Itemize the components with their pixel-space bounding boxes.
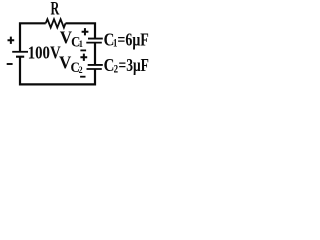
polarity - for C1 [80,49,86,51]
svg-text:100V: 100V [28,43,61,63]
svg-text:=6μF: =6μF [117,30,148,50]
battery V1 short plate (-) [16,56,24,58]
value label C1=6uF [104,29,149,49]
svg-text:=3μF: =3μF [119,55,149,75]
wire: top-left segment (battery + terminal up to resistor) [20,23,46,51]
resistor R [46,19,66,27]
capacitor C2 [87,65,103,69]
capacitor C1 [86,39,103,43]
battery polarity - [7,63,13,65]
polarity + for C1 [82,28,89,35]
battery polarity + [8,37,15,44]
label VC2 [59,53,83,76]
wire: bottom loop (C2 bottom plate, bottom wire, up to battery - terminal) [20,57,95,84]
battery V1 long plate (+) [12,51,28,53]
svg-text:R: R [51,0,60,20]
svg-text:2: 2 [79,65,83,76]
wire: junction between C1 and C2 [94,43,96,65]
label VC1 [60,27,83,50]
polarity + for C2 [80,54,87,61]
value label C2=3uF [104,55,149,76]
svg-text:1: 1 [79,39,83,50]
svg-text:2: 2 [114,63,119,76]
wire: top-right segment (resistor to C1 top plate) [66,23,96,38]
polarity - for C2 [80,76,85,78]
